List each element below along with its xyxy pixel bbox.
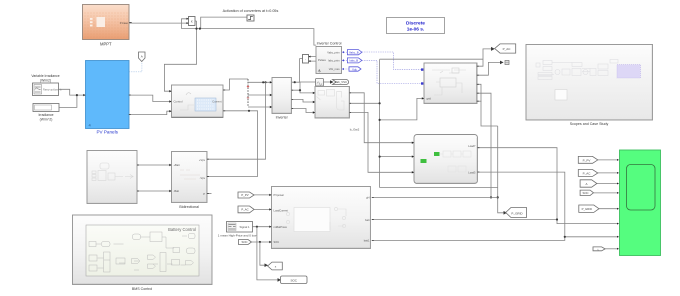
from tag P_AC scope — [578, 170, 598, 177]
wire grid out2 to terminator — [477, 62, 501, 75]
wire grid out4 path — [477, 93, 491, 197]
svg-text:1 mean High-Price and 0 low: 1 mean High-Price and 0 low — [218, 233, 257, 237]
block Inverter Control — [316, 42, 342, 74]
svg-text:Vabc_B: Vabc_B — [349, 50, 359, 54]
wire PV out1 to boost in2 — [129, 95, 172, 101]
output stubs — [129, 23, 480, 241]
svg-text:P_PV: P_PV — [583, 158, 591, 162]
goto tag P_GRID mid — [506, 208, 527, 218]
wire SOC down to goto x — [260, 242, 266, 265]
goto tag A above PV — [139, 52, 146, 62]
from tag Iabc_B — [347, 58, 362, 63]
svg-text:-Vpv: -Vpv — [200, 176, 206, 180]
from tag Vabc_B — [347, 50, 362, 55]
svg-text:SOC: SOC — [290, 278, 297, 282]
block three-phase line — [315, 87, 350, 119]
svg-text:Vdc: Vdc — [352, 67, 357, 71]
junction enable — [199, 28, 201, 30]
svg-text:-Batt: -Batt — [174, 189, 180, 193]
svg-text:(W/m^2): (W/m^2) — [40, 118, 53, 122]
svg-text:Activation of converters at t=: Activation of converters at t=0.05s — [223, 9, 279, 13]
svg-text:Ramp-up/down Irr: Ramp-up/down Irr — [43, 88, 62, 91]
from tag P_PV left — [238, 192, 254, 198]
block signal builder high price — [218, 222, 257, 238]
svg-text:BMS Control: BMS Control — [132, 287, 153, 291]
svg-text:P_AC: P_AC — [583, 171, 592, 175]
svg-text:P_GRID: P_GRID — [582, 207, 592, 211]
wire blue dashed Vabc to grid — [362, 52, 422, 70]
wire line block out a — [349, 93, 414, 143]
wire grid out5 stub — [477, 100, 482, 102]
block BMS Control outer — [73, 215, 213, 291]
block Variable Irradiance signal builder — [31, 74, 62, 96]
block Inverter — [272, 78, 292, 120]
block saturation mirrored — [303, 55, 311, 64]
block MPPT — [83, 5, 130, 47]
svg-text:batt1: batt1 — [364, 239, 370, 243]
svg-text:·: · — [305, 58, 306, 62]
block step activation — [247, 15, 254, 21]
block EMS — [272, 187, 371, 249]
goto tag P_AC top — [495, 44, 516, 53]
svg-text:batt: batt — [365, 218, 370, 222]
svg-text:Signal 1: Signal 1 — [239, 225, 250, 229]
svg-text:PV Panels: PV Panels — [96, 130, 118, 135]
svg-text:Bidirectional: Bidirectional — [179, 205, 199, 209]
svg-text:MPPT: MPPT — [100, 42, 112, 47]
wire signal down to SOC store — [257, 227, 279, 280]
svg-text:Control: Control — [174, 99, 183, 103]
from tag P_GRID scope — [579, 205, 599, 212]
svg-text:(W/m2): (W/m2) — [40, 79, 51, 83]
port marks — [83, 81, 619, 250]
wire irradiance sources to PV input — [59, 89, 86, 107]
wire line block out b and grid bus — [349, 59, 497, 187]
svg-text:Variable Irradiance: Variable Irradiance — [31, 74, 59, 78]
wire line block out c — [349, 112, 414, 172]
svg-text:b_Gw2: b_Gw2 — [350, 128, 360, 132]
svg-text:Inverter Control: Inverter Control — [317, 42, 342, 46]
svg-text:Discrete: Discrete — [406, 20, 425, 26]
svg-text:Irradiance: Irradiance — [38, 113, 53, 117]
svg-text:gH: gH — [366, 196, 369, 200]
svg-text:A: A — [141, 55, 143, 59]
wire blue dashed tag stubs — [342, 51, 344, 70]
wire DC+ to inverter — [248, 81, 272, 83]
svg-text:noBatPmax: noBatPmax — [274, 225, 288, 229]
node DC link measurement bar — [247, 79, 249, 107]
svg-text:Vdc_mes: Vdc_mes — [329, 67, 341, 71]
wire MPPT output to product block — [129, 22, 188, 24]
svg-text:1e-06 s.: 1e-06 s. — [407, 27, 425, 33]
wire DC- to inverter — [248, 106, 272, 108]
svg-text:Pulses: Pulses — [318, 58, 326, 62]
svg-text:P: P — [203, 192, 205, 196]
wire loads out Load5 down — [477, 172, 618, 237]
svg-text:Iabc_prim: Iabc_prim — [328, 58, 339, 62]
block Battery — [87, 151, 137, 204]
block shading edges — [73, 45, 653, 284]
block Irradiance constant — [33, 104, 59, 122]
wire saturation to inverter g — [292, 59, 303, 83]
goto tag Vab_VSC — [330, 80, 349, 85]
svg-text:x: x — [191, 20, 193, 24]
block product enable — [187, 17, 196, 26]
wire Vab measurement to goto tag — [324, 81, 332, 83]
block Loads — [414, 135, 478, 184]
svg-text:+Batt: +Batt — [174, 163, 180, 167]
svg-text:P_GRID: P_GRID — [511, 211, 523, 215]
block Vab measurement — [316, 79, 324, 87]
svg-text:Load5: Load5 — [468, 171, 476, 175]
wire PV measurement blue dashed to goto A — [129, 62, 142, 72]
svg-text:Load7: Load7 — [468, 144, 476, 148]
block Scopes and Case Study — [526, 45, 653, 127]
wire enable bus from step — [164, 17, 316, 91]
svg-text:Current: Current — [212, 99, 222, 103]
svg-text:SOC: SOC — [274, 240, 280, 244]
block Discrete powergui — [387, 18, 445, 34]
wire boost out2 to bidirectional +Vpv rail — [207, 111, 258, 177]
data store SOC — [281, 276, 308, 284]
wire inverter control pulses to saturation — [309, 57, 317, 62]
wire grid out3 down the collector — [477, 84, 505, 213]
svg-text:Iabc_B: Iabc_B — [349, 59, 358, 63]
block Boost converter — [172, 85, 224, 118]
from tag A scope — [580, 180, 597, 187]
from tag P_PV scope — [578, 156, 598, 163]
block PV Panels — [86, 61, 130, 135]
from tag Vdc — [349, 67, 361, 72]
wire battery to bidirectional — [137, 165, 172, 191]
svg-text:P-base: P-base — [120, 21, 129, 25]
wire From tags into EMS — [252, 195, 272, 242]
wire boost out1 to DC link — [223, 79, 248, 90]
clock tag t — [593, 247, 605, 252]
svg-text:Vabc_prim: Vabc_prim — [327, 51, 339, 55]
svg-text:P_AC: P_AC — [241, 208, 248, 212]
wire blue dashed Iabc to grid — [362, 60, 422, 83]
svg-text:PVpower: PVpower — [274, 193, 285, 197]
wire EMS out1 to P_GRID junction — [372, 196, 498, 198]
from tag P_AC left — [238, 206, 254, 213]
block terminator — [505, 61, 509, 65]
wire EMS out3 long — [372, 237, 565, 241]
svg-text:SOC: SOC — [582, 191, 588, 195]
svg-text:+Vpv: +Vpv — [199, 158, 206, 162]
block Bidirectional — [172, 152, 208, 209]
svg-text:P_AC: P_AC — [503, 47, 512, 51]
wire DC rail to bidirectional -Vpv — [207, 82, 266, 159]
svg-text:SOC: SOC — [241, 240, 247, 244]
svg-text:LoadCurrent: LoadCurrent — [274, 209, 289, 213]
wire bidirectional P stub — [207, 193, 212, 195]
from tag SOC left — [239, 240, 252, 245]
from tag SOC scope — [580, 190, 593, 195]
wire EMS out2 long — [372, 219, 557, 221]
wire grid out1 to P_AC goto — [477, 49, 493, 66]
goto tag x — [268, 262, 283, 270]
block Scope green — [620, 150, 661, 256]
wire scope from-tags to scope inputs — [594, 160, 619, 249]
svg-text:Scopes and Case Study: Scopes and Case Study — [570, 122, 609, 126]
svg-text:Inverter: Inverter — [276, 115, 289, 119]
wire PV out2 to boost in3 — [129, 111, 172, 114]
block grid measurement — [424, 63, 477, 104]
svg-text:A: A — [585, 182, 587, 186]
svg-text:Battery Control: Battery Control — [168, 227, 196, 232]
svg-text:P_PV: P_PV — [241, 193, 248, 197]
svg-text:grid: grid — [427, 97, 432, 101]
wire DC mid to inverter — [248, 94, 272, 96]
wire inverter outputs to 3-phase line block — [292, 82, 316, 113]
svg-text:Vab_VSC: Vab_VSC — [335, 80, 347, 84]
wire loads out Load7 down — [477, 148, 618, 224]
